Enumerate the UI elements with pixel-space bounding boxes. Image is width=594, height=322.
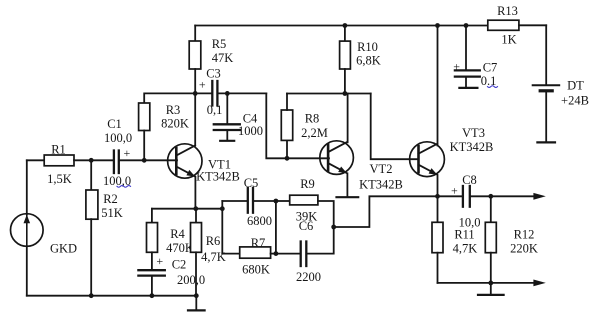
node junction output ground <box>488 281 493 286</box>
C3 plus polarity <box>199 78 206 92</box>
wire VT2 emitter <box>346 173 348 196</box>
node junction R2-rail <box>89 293 94 298</box>
svg-text:R4: R4 <box>170 227 185 241</box>
label C8 <box>462 173 477 187</box>
value 470K <box>166 241 194 255</box>
svg-text:C5: C5 <box>244 176 259 190</box>
svg-text:C8: C8 <box>462 173 477 187</box>
svg-text:C3: C3 <box>206 67 221 81</box>
wire bottom ground rail <box>27 295 197 297</box>
node junction VT3 emitter <box>435 194 440 199</box>
ground C7 <box>459 87 477 89</box>
output arrow bottom <box>533 280 545 287</box>
transistor VT3 <box>410 142 445 177</box>
svg-text:R3: R3 <box>166 103 181 117</box>
resistor R12 <box>485 196 496 283</box>
svg-text:C1: C1 <box>107 117 122 131</box>
output arrow top <box>533 193 545 200</box>
label R3 <box>166 103 181 117</box>
node junction C8-R12 <box>488 194 493 199</box>
svg-text:R7: R7 <box>251 236 266 250</box>
svg-text:R11: R11 <box>454 228 474 242</box>
svg-text:100,0: 100,0 <box>104 131 132 145</box>
label R9 <box>300 177 315 191</box>
ground C4 <box>220 140 234 142</box>
label C5 <box>244 176 259 190</box>
wire to VT3 base <box>371 94 419 160</box>
svg-text:R10: R10 <box>357 40 378 54</box>
wire VT1 collector <box>194 93 196 145</box>
node junction C3-C4 <box>225 91 230 96</box>
value +24B <box>561 94 589 108</box>
wire C5-R7 right vertical <box>275 201 277 254</box>
label VT3 <box>462 126 485 140</box>
wire C5-R7 vertical <box>221 201 223 254</box>
svg-text:+: + <box>199 78 206 92</box>
wire emitter node horizontal <box>152 208 222 210</box>
resistor R7 <box>222 247 276 258</box>
node VT1 collector junction <box>193 91 198 96</box>
transistor VT2 <box>320 141 354 175</box>
resistor R2 <box>86 160 98 295</box>
node junction R3-VT1 base <box>142 158 147 163</box>
node junction VT1 emitter <box>193 206 198 211</box>
svg-text:200,0: 200,0 <box>177 273 205 287</box>
value 2200 <box>296 270 321 284</box>
node junction R10 bottom <box>343 91 348 96</box>
ground main <box>188 296 205 311</box>
node junction rail-VT3 collector <box>435 23 440 28</box>
label DT <box>567 79 584 93</box>
capacitor C8 <box>463 186 534 207</box>
svg-text:+24B: +24B <box>561 94 589 108</box>
value 1K <box>501 33 516 47</box>
wire output bottom <box>438 282 534 284</box>
label R12 <box>514 228 535 242</box>
svg-text:KT342B: KT342B <box>450 140 494 154</box>
value 6,8K <box>356 54 381 68</box>
wire VT1 emitter <box>194 177 196 208</box>
svg-text:VT3: VT3 <box>462 126 485 140</box>
node junction C2-rail <box>150 293 155 298</box>
value 51K <box>101 206 123 220</box>
value 1000 <box>238 124 263 138</box>
label VT1 <box>208 158 231 172</box>
label R8 <box>305 112 320 126</box>
ground output <box>478 283 504 295</box>
svg-text:+: + <box>451 184 458 198</box>
label R7 <box>251 236 266 250</box>
battery DT <box>533 25 560 142</box>
node junction C5-R9 <box>274 199 279 204</box>
resistor R1 <box>27 155 113 166</box>
wire feedback to VT3 emitter <box>334 196 438 227</box>
value 1,5K <box>47 172 72 186</box>
label C3 <box>206 67 221 81</box>
value 2,2M <box>301 126 328 140</box>
C1 plus polarity <box>124 146 131 160</box>
label R1 <box>51 143 66 157</box>
wire VT3 emitter to C8 <box>438 195 463 197</box>
capacitor C7 <box>455 26 480 88</box>
label R4 <box>170 227 185 241</box>
label VT1 type KT342B <box>196 170 240 184</box>
value 0,1 <box>207 103 223 117</box>
capacitor C2 <box>138 270 164 296</box>
wire VT2 collector rail <box>287 93 371 95</box>
svg-text:R5: R5 <box>212 37 227 51</box>
label C1 <box>107 117 122 131</box>
value 820K <box>161 117 189 131</box>
svg-text:C2: C2 <box>172 258 187 272</box>
resistor R13 <box>488 20 546 30</box>
svg-text:4,7K: 4,7K <box>453 242 478 256</box>
resistor R11 <box>432 196 443 283</box>
value 680K <box>242 263 270 277</box>
svg-text:C6: C6 <box>299 219 314 233</box>
svg-text:R6: R6 <box>206 234 221 248</box>
svg-text:47K: 47K <box>212 51 234 65</box>
C2 plus polarity <box>156 254 163 268</box>
label VT2 <box>370 162 393 176</box>
svg-text:1K: 1K <box>501 33 516 47</box>
resistor R3 <box>139 93 196 160</box>
capacitor C1 <box>114 151 177 174</box>
svg-text:2200: 2200 <box>296 270 321 284</box>
resistor R8 <box>281 94 292 159</box>
label R5 <box>212 37 227 51</box>
wire +24V top rail <box>195 25 488 27</box>
svg-text:680K: 680K <box>242 263 270 277</box>
label R13 <box>497 4 518 18</box>
svg-text:+: + <box>453 60 460 74</box>
wire VT3 emitter <box>437 176 439 197</box>
node junction R6-rail <box>194 293 199 298</box>
label VT3 type KT342B <box>450 140 494 154</box>
label GKD <box>50 242 77 256</box>
node junction R8-base wire <box>285 156 290 161</box>
value 220K <box>510 242 538 256</box>
value 10,0 <box>459 216 481 230</box>
battery DT bottom terminal <box>537 141 555 143</box>
value 0.1 <box>481 74 497 88</box>
resistor R10 <box>340 26 351 94</box>
value 39K <box>296 210 318 224</box>
node junction R1-R2-C1 <box>89 158 94 163</box>
C7 plus polarity <box>453 60 460 74</box>
node junction R7-C6 <box>274 251 279 256</box>
svg-text:6800: 6800 <box>247 214 272 228</box>
label R11 <box>454 228 474 242</box>
label C4 <box>243 112 258 126</box>
resistor R5 <box>189 26 201 94</box>
transistor VT1 <box>168 144 202 178</box>
svg-text:+: + <box>156 254 163 268</box>
value C1 100,0 lower <box>103 174 131 188</box>
svg-text:220K: 220K <box>510 242 538 256</box>
svg-text:VT2: VT2 <box>370 162 393 176</box>
svg-text:1,5K: 1,5K <box>47 172 72 186</box>
svg-text:GKD: GKD <box>50 242 77 256</box>
value 200,0 <box>177 273 205 287</box>
wire C3 output down <box>266 93 329 158</box>
svg-text:1000: 1000 <box>238 124 263 138</box>
squiggle under 0.1 <box>488 86 498 88</box>
value 47K <box>212 51 234 65</box>
label R10 <box>357 40 378 54</box>
value 6800 <box>247 214 272 228</box>
node junction rail-C7 <box>464 23 469 28</box>
value C1 100,0 upper <box>104 131 132 145</box>
wire VT2 collector <box>347 94 349 143</box>
svg-text:R1: R1 <box>51 143 66 157</box>
svg-text:51K: 51K <box>101 206 123 220</box>
C8 plus polarity <box>451 184 458 198</box>
svg-text:C7: C7 <box>483 61 498 75</box>
ground VT2 emitter <box>337 196 359 198</box>
svg-text:KT342B: KT342B <box>196 170 240 184</box>
svg-text:R8: R8 <box>305 112 320 126</box>
svg-text:R2: R2 <box>103 192 118 206</box>
label C2 <box>172 258 187 272</box>
svg-text:820K: 820K <box>161 117 189 131</box>
node junction rail-R10 <box>343 23 348 28</box>
svg-text:DT: DT <box>567 79 584 93</box>
svg-text:+: + <box>124 146 131 160</box>
resistor R6 <box>191 209 202 296</box>
value R11 4,7K <box>453 242 478 256</box>
value 4,7K <box>201 250 226 264</box>
source GKD <box>11 160 44 295</box>
label C7 <box>483 61 498 75</box>
svg-text:4,7K: 4,7K <box>201 250 226 264</box>
node junction C5-R7 branch <box>220 206 225 211</box>
resistor R4 <box>147 209 158 270</box>
label R6 <box>206 234 221 248</box>
label R2 <box>103 192 118 206</box>
capacitor C3 <box>195 81 266 106</box>
svg-text:2,2M: 2,2M <box>301 126 328 140</box>
svg-text:R13: R13 <box>497 4 518 18</box>
label VT2 type KT342B <box>359 178 403 192</box>
svg-text:R12: R12 <box>514 228 535 242</box>
capacitor C6 <box>276 227 334 266</box>
svg-text:R9: R9 <box>300 177 315 191</box>
wire VT3 collector <box>437 26 439 146</box>
svg-text:0,1: 0,1 <box>207 103 223 117</box>
squiggle under 100,0 <box>117 186 131 188</box>
capacitor C5 <box>222 188 276 213</box>
svg-text:6,8K: 6,8K <box>356 54 381 68</box>
node junction feedback <box>331 225 336 230</box>
capacitor C4 <box>214 93 240 140</box>
svg-text:KT342B: KT342B <box>359 178 403 192</box>
resistor R9 <box>276 195 334 227</box>
label C6 <box>299 219 314 233</box>
